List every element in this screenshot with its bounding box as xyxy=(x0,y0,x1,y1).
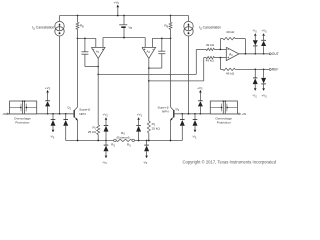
label RG pin (right) xyxy=(127,143,131,148)
resistor RB (right) xyxy=(169,16,172,39)
svg-text:Super-β: Super-β xyxy=(79,108,90,112)
svg-text:+VS: +VS xyxy=(261,29,267,34)
label -VS (right rail clamp) xyxy=(143,160,148,165)
svg-text:-VS: -VS xyxy=(50,135,55,140)
current source I2 (IQ Cancellation, right) xyxy=(184,16,193,37)
svg-text:Q1: Q1 xyxy=(67,106,71,111)
label -VS (REF clamp) xyxy=(252,94,257,99)
svg-text:+VS: +VS xyxy=(261,94,267,99)
label RB (left) xyxy=(80,24,84,29)
svg-text:49 kΩ: 49 kΩ xyxy=(226,30,235,34)
node: right rail clamp +VS junction xyxy=(138,140,140,142)
svg-text:49 kΩ: 49 kΩ xyxy=(206,43,215,47)
wire: A2 output to bottom 49k resistor xyxy=(149,58,204,81)
wire: +VS supply rail (top) xyxy=(60,15,189,17)
svg-text:RG: RG xyxy=(127,143,131,148)
resistor RG (external) xyxy=(116,139,132,141)
label IQ Cancellation (right) xyxy=(199,26,221,31)
svg-text:25 kΩ: 25 kΩ xyxy=(152,126,161,130)
diode D13 to -VS (REF clamp) xyxy=(253,69,258,91)
svg-text:VB: VB xyxy=(128,25,132,30)
svg-text:NPN: NPN xyxy=(79,112,86,116)
label -IN xyxy=(2,112,6,116)
transistor Q1 (Super-beta NPN, left) xyxy=(74,38,78,140)
label -VS (left input clamp) xyxy=(50,135,55,140)
svg-text:A2: A2 xyxy=(147,50,151,55)
svg-text:+VS: +VS xyxy=(103,113,109,118)
node: R1 / rail junction xyxy=(97,140,99,142)
wire: RG rail right segment xyxy=(135,140,183,142)
svg-text:+VS: +VS xyxy=(137,113,143,118)
svg-text:RG: RG xyxy=(111,143,115,148)
diode D11 to -VS (OUT clamp) xyxy=(253,33,258,54)
battery VB xyxy=(119,16,127,38)
node: top rail / RB1 junction xyxy=(77,15,79,17)
label 49 kOhm (feedback) xyxy=(226,30,235,34)
svg-text:NPN: NPN xyxy=(162,110,169,114)
resistor 49k (A3 top input) xyxy=(196,48,226,50)
label IQ Cancellation (left) xyxy=(32,26,54,31)
wire: RB2 node to A2 inverting input xyxy=(152,38,170,47)
pin OUT xyxy=(269,53,271,55)
svg-text:25 kΩ: 25 kΩ xyxy=(88,130,97,134)
pin RG (right) xyxy=(132,139,135,142)
node: OUT clamp 1 junction xyxy=(254,53,256,55)
resistor 49k (REF) xyxy=(220,58,269,71)
node: right input clamp +VS junction xyxy=(200,113,202,115)
diode D10 to -VS (right rail clamp) xyxy=(144,141,149,159)
node: A2 output to difference amp wire xyxy=(148,80,150,82)
resistor 49k (A3 bottom input) xyxy=(204,56,227,58)
svg-text:IQ Cancellation: IQ Cancellation xyxy=(199,26,221,31)
node: A3 inverting input / feedback junction xyxy=(220,49,222,51)
label -VS (right input clamp) xyxy=(192,135,197,140)
diode D5 to -VS (right input) xyxy=(193,114,198,133)
node: A1 output / C1 feedback junction xyxy=(97,66,99,68)
svg-text:RB: RB xyxy=(164,24,168,29)
diode D3 (Q1 base-emitter clamp) xyxy=(63,114,68,141)
diode D4 to +VS (right input) xyxy=(198,90,203,114)
node: OUT clamp 2 junction xyxy=(263,53,265,55)
resistor RB (left) xyxy=(76,16,79,39)
node: RB1 tee to A1 inverting input xyxy=(77,38,79,40)
svg-text:IQ Cancellation: IQ Cancellation xyxy=(32,26,54,31)
svg-text:OUT: OUT xyxy=(272,52,279,56)
label RG pin (left) xyxy=(111,143,115,148)
node: A1 output to difference amp wire xyxy=(97,74,99,76)
label Overvoltage Protection (left) xyxy=(14,116,31,124)
power +VS arrow (top center) xyxy=(114,0,120,15)
node: A3 noninverting input / REF junction xyxy=(220,57,222,59)
label VB xyxy=(128,25,132,30)
svg-text:+VS: +VS xyxy=(197,86,203,91)
current source I1 (IQ Cancellation, left) xyxy=(55,16,64,37)
wire: A1 output down xyxy=(97,58,99,74)
transistor Q2 (Super-beta NPN, right) xyxy=(170,38,174,140)
node: top rail / +VS arrow junction xyxy=(117,15,119,17)
overvoltage protection box (right) xyxy=(210,101,238,114)
node: right input clamp -VS junction xyxy=(194,113,196,115)
node: left input clamp -VS junction xyxy=(52,113,54,115)
svg-text:+VS: +VS xyxy=(114,0,120,5)
label Overvoltage Protection (right) xyxy=(215,116,232,124)
resistor R1 (25 kOhm) xyxy=(97,74,100,140)
diode D7 to +VS (left rail clamp) xyxy=(104,117,109,140)
node: RB2 tee to A2 inverting input xyxy=(170,38,172,40)
label +VS (left input clamp) xyxy=(45,86,51,91)
node: Q2 emitter / rail junction xyxy=(170,140,172,142)
svg-text:RB: RB xyxy=(80,24,84,29)
wire: A1 output to top 49k resistor xyxy=(98,49,196,74)
label 49 kOhm (top input) xyxy=(206,43,215,47)
wire: I2 output down to Q2 base node xyxy=(188,36,190,114)
label R2 25 kOhm xyxy=(152,122,161,130)
label RB (right) xyxy=(164,24,168,29)
node: top rail / RB2 junction xyxy=(170,15,172,17)
op-amp A2 xyxy=(142,47,156,58)
op-amp A3 xyxy=(226,47,239,60)
label RG External xyxy=(116,131,129,139)
node: right rail clamp -VS junction xyxy=(146,140,148,142)
label +VS (REF clamp) xyxy=(261,94,267,99)
label +IN xyxy=(242,112,247,116)
node: Q1 base-emitter diode junction xyxy=(65,113,67,115)
svg-text:-IN: -IN xyxy=(2,112,6,116)
pin circle -IN xyxy=(6,113,9,115)
node: Q1 base / I1 junction xyxy=(59,113,61,115)
label R1 25 kOhm xyxy=(88,126,97,134)
svg-text:Q2: Q2 xyxy=(175,107,179,112)
svg-text:REF: REF xyxy=(272,68,279,72)
wire: Q1 base xyxy=(37,113,75,115)
node: R2 / rail junction xyxy=(148,140,150,142)
label 49 kOhm (bottom input) xyxy=(206,59,215,63)
resistor 49k (A3 feedback) xyxy=(220,37,245,53)
pin REF xyxy=(269,68,271,70)
diode D2 to -VS (left input) xyxy=(51,114,56,133)
svg-text:-VS: -VS xyxy=(252,29,257,34)
label -VS (OUT clamp) xyxy=(252,29,257,34)
svg-text:A1: A1 xyxy=(96,50,100,55)
node: Q2 base-emitter diode junction xyxy=(181,113,183,115)
node: top rail / VB junction xyxy=(123,15,125,17)
node: C1 top tap xyxy=(84,38,86,40)
svg-text:+VS: +VS xyxy=(45,86,51,91)
node: left input clamp +VS junction xyxy=(47,113,49,115)
label Q2 xyxy=(175,107,179,112)
label -VS (left rail clamp) xyxy=(102,160,107,165)
node: Q1 emitter / rail junction xyxy=(77,140,79,142)
diode D6 (Q2 base-emitter clamp) xyxy=(180,114,185,141)
node: C2 top tap xyxy=(161,38,163,40)
pin circle +IN xyxy=(238,113,240,115)
label Super-beta NPN (right) xyxy=(158,105,169,113)
wire: A3 output to OUT xyxy=(239,53,269,55)
label 49 kOhm (REF) xyxy=(226,71,235,75)
label REF xyxy=(272,68,279,72)
svg-text:Protection: Protection xyxy=(217,120,231,124)
wire: VB bias rail to A1/A2 noninverting inputs xyxy=(103,38,145,48)
capacitor C1 xyxy=(81,38,98,66)
diode D14 to +VS (REF clamp) xyxy=(261,69,266,91)
node: left rail clamp junction xyxy=(105,140,107,142)
label +VS (right input clamp) xyxy=(197,86,203,91)
svg-text:49 kΩ: 49 kΩ xyxy=(206,59,215,63)
node: REF clamp 2 junction xyxy=(263,69,265,71)
wire: RG rail left segment xyxy=(66,140,114,142)
node: VB bottom junction xyxy=(123,37,125,39)
svg-text:-VS: -VS xyxy=(102,160,107,165)
op-amp A1 xyxy=(91,47,105,58)
label Super-beta NPN (left) xyxy=(79,108,90,117)
label OUT xyxy=(272,52,279,56)
diode D9 to +VS (right rail clamp) xyxy=(136,117,141,140)
svg-text:(External): (External) xyxy=(116,135,129,139)
wire: RB1 node to A1 inverting input xyxy=(78,38,96,47)
label +VS (left rail clamp) xyxy=(103,113,109,118)
label +VS (right rail clamp) xyxy=(137,113,143,118)
node: A2 output / C2 feedback junction xyxy=(148,67,150,69)
svg-text:49 kΩ: 49 kΩ xyxy=(226,71,235,75)
resistor R2 (25 kOhm) xyxy=(147,81,150,141)
label +VS (OUT clamp) xyxy=(261,29,267,34)
svg-text:Copyright © 2017, Texas Instru: Copyright © 2017, Texas Instruments Inco… xyxy=(183,160,277,165)
wire: A2 output down xyxy=(148,58,150,81)
node: REF clamp 1 junction xyxy=(254,69,256,71)
svg-text:+IN: +IN xyxy=(242,112,247,116)
svg-text:-VS: -VS xyxy=(143,160,148,165)
diode D12 to +VS (OUT clamp) xyxy=(261,33,266,54)
diode D1 to +VS (left input) xyxy=(45,90,50,114)
wire: Q2 base xyxy=(175,113,211,115)
pin RG (left) xyxy=(114,139,117,142)
svg-text:Protection: Protection xyxy=(15,120,29,124)
node: feedback / output junction xyxy=(245,53,247,55)
svg-text:-VS: -VS xyxy=(192,135,197,140)
node: Q2 base / I2 junction xyxy=(188,113,190,115)
label copyright xyxy=(183,160,277,165)
svg-text:-VS: -VS xyxy=(252,94,257,99)
diode D8 to -VS (left rail clamp) xyxy=(104,141,109,159)
capacitor C2 xyxy=(149,38,166,68)
wire: I1 output down to Q1 base node xyxy=(59,36,61,114)
svg-text:A3: A3 xyxy=(229,52,233,57)
label Q1 xyxy=(67,106,71,111)
overvoltage protection box (left) xyxy=(8,101,37,114)
